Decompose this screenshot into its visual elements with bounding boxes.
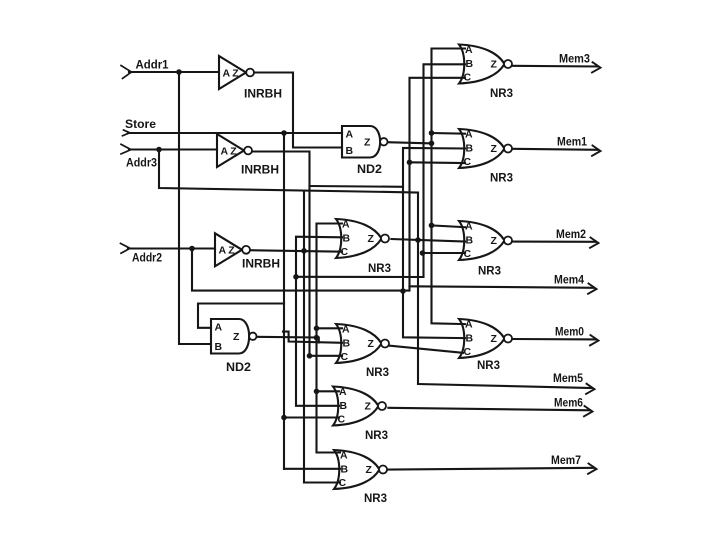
svg-text:B: B — [346, 145, 354, 157]
wire Addr3 right bus — [417, 193, 419, 384]
nor NR3 U14 — [459, 319, 505, 358]
svg-text:B: B — [466, 143, 474, 155]
output Mem0 — [513, 338, 597, 340]
svg-text:Z: Z — [491, 235, 498, 247]
input port Addr2 — [121, 243, 131, 253]
svg-text:Z: Z — [491, 143, 498, 155]
wire Addr1 bus to ND2 U5 pin B — [179, 72, 211, 344]
inverter U1 INRBH — [219, 56, 246, 89]
svg-text:Z: Z — [364, 137, 371, 149]
svg-text:Mem1: Mem1 — [557, 137, 588, 149]
svg-text:C: C — [338, 413, 346, 425]
node Store tap — [281, 130, 287, 136]
svg-text:Z: Z — [368, 233, 375, 245]
svg-text:NR3: NR3 — [478, 266, 501, 278]
wire NR3 U9 pin C stub — [284, 416, 339, 418]
output Mem5 — [418, 384, 592, 388]
svg-text:NR3: NR3 — [477, 360, 500, 372]
node Addr3 tap — [156, 147, 162, 153]
wire NR3 U7 pin A stub — [317, 327, 343, 329]
nand ND2 U5 — [211, 319, 249, 354]
svg-text:INRBH: INRBH — [242, 259, 280, 271]
svg-text:Mem3: Mem3 — [559, 54, 590, 66]
wire U7 output to U14 pin C — [388, 346, 463, 353]
inverter U2 INRBH — [217, 134, 244, 167]
svg-text:B: B — [340, 400, 348, 412]
output Mem1 — [513, 149, 599, 150]
svg-text:B: B — [343, 233, 351, 245]
svg-text:Mem6: Mem6 — [554, 398, 583, 410]
nor NR3 U9 — [333, 387, 379, 426]
svg-text:A: A — [465, 221, 473, 233]
svg-text:Mem2: Mem2 — [556, 229, 586, 241]
node U3 output junction — [301, 248, 307, 254]
svg-text:Z: Z — [491, 59, 498, 71]
svg-text:ND2: ND2 — [357, 164, 382, 176]
wire NR3 U7 pin B dogleg — [283, 332, 342, 343]
svg-text:C: C — [464, 156, 472, 168]
svg-text:NR3: NR3 — [490, 88, 513, 100]
svg-text:Z: Z — [491, 333, 498, 345]
svg-text:NR3: NR3 — [490, 173, 513, 185]
svg-text:NR3: NR3 — [366, 367, 389, 379]
wire NR3 U13 pin A stub — [432, 225, 466, 227]
svg-text:A: A — [342, 324, 350, 336]
svg-text:C: C — [341, 351, 349, 363]
wire V4 bus — [296, 64, 465, 277]
svg-text:A: A — [339, 386, 347, 398]
svg-text:A: A — [219, 245, 227, 257]
wire B bus — [296, 237, 342, 406]
svg-text:B: B — [466, 58, 474, 70]
nor NR3 U6 — [336, 219, 382, 258]
svg-text:Z: Z — [365, 401, 372, 413]
wire ND2 U5 output — [256, 337, 319, 343]
svg-text:Mem5: Mem5 — [553, 373, 584, 385]
svg-text:C: C — [464, 248, 472, 260]
svg-text:C: C — [341, 246, 349, 258]
svg-text:C: C — [464, 346, 472, 358]
svg-text:A: A — [346, 129, 354, 141]
svg-text:Store: Store — [125, 119, 156, 131]
node B bus join — [293, 274, 299, 280]
svg-text:INRBH: INRBH — [241, 165, 279, 177]
nor NR3 U12 — [459, 129, 505, 168]
wire left bus L3 — [303, 191, 305, 483]
input port Store — [123, 130, 130, 136]
wire right B-feed bus — [403, 148, 465, 338]
svg-text:Z: Z — [232, 67, 239, 79]
output Mem7 — [388, 468, 594, 470]
wire NR3 U10 pin C stub — [304, 481, 340, 483]
inverter U3 INRBH — [215, 233, 242, 266]
wire NR3 U13 pin C stub — [423, 252, 466, 254]
wire U6 output to U13 pin B — [391, 239, 465, 242]
wire V5 bus — [410, 78, 466, 286]
output Mem6 — [388, 408, 590, 411]
wire NR3 U9 pin A stub — [317, 390, 340, 392]
nor NR3 U11 — [459, 45, 505, 84]
svg-text:Mem4: Mem4 — [554, 275, 585, 287]
svg-text:C: C — [339, 477, 347, 489]
output Mem3 — [513, 65, 599, 68]
svg-text:B: B — [343, 338, 351, 350]
wire NR3 U12 pin A stub — [432, 132, 466, 135]
nor NR3 U10 — [334, 450, 380, 489]
svg-text:Z: Z — [228, 245, 235, 257]
svg-text:NR3: NR3 — [364, 493, 387, 505]
svg-text:A: A — [465, 44, 473, 56]
wire NR3 U7 pin C stub — [310, 355, 343, 357]
node U2 bus to NR3 U7 pin C — [307, 353, 313, 359]
nor NR3 U13 — [459, 221, 505, 260]
svg-text:ND2: ND2 — [226, 362, 251, 374]
node V5 to NR3 U12 pin C — [407, 160, 413, 166]
svg-text:Z: Z — [368, 338, 375, 350]
svg-text:B: B — [215, 341, 223, 353]
svg-text:A: A — [340, 450, 348, 462]
output Mem2 — [513, 241, 597, 243]
svg-text:NR3: NR3 — [368, 263, 391, 275]
svg-text:A: A — [221, 145, 229, 157]
svg-text:B: B — [466, 235, 474, 247]
node V4 to NR3 U13 pin C — [420, 250, 426, 256]
svg-text:Z: Z — [366, 464, 373, 476]
wire U1 output to ND2 U4 pin B — [254, 73, 342, 148]
svg-text:Addr3: Addr3 — [126, 158, 157, 170]
wire V3 bus — [432, 49, 466, 325]
svg-text:Z: Z — [230, 145, 237, 157]
svg-text:NR3: NR3 — [365, 430, 388, 442]
output Mem4 — [410, 286, 595, 288]
wire ND2 U4 output — [387, 142, 433, 143]
svg-text:Addr2: Addr2 — [132, 253, 162, 265]
node Store bus to NR3 U9 pin C — [281, 415, 287, 421]
node A-feed to NR3 U9 pin A — [314, 389, 320, 395]
svg-text:Mem0: Mem0 — [555, 327, 584, 339]
svg-text:B: B — [341, 464, 349, 476]
svg-text:Z: Z — [233, 331, 240, 343]
svg-text:A: A — [465, 129, 473, 141]
node V3 to NR3 U12 pin A — [429, 130, 435, 136]
node A-feed to NR3 U7 pin A — [314, 326, 320, 332]
node Addr1 tap — [176, 69, 182, 75]
wire U2 output bus — [252, 152, 310, 356]
svg-text:Addr1: Addr1 — [136, 60, 170, 72]
wire U2 bus branch to right B-feed bus — [310, 185, 404, 188]
nor NR3 U7 — [336, 324, 382, 363]
svg-text:A: A — [342, 219, 350, 231]
svg-text:B: B — [466, 333, 474, 345]
wire Store bus branch to ND2 U5 pin A — [198, 304, 284, 328]
wire A-feed bus — [317, 224, 343, 453]
svg-text:INRBH: INRBH — [244, 89, 282, 101]
wire NR3 U10 pin B stub — [284, 468, 340, 470]
nand ND2 U4 — [342, 126, 380, 158]
wire Addr2 long line — [192, 249, 410, 291]
svg-text:A: A — [223, 67, 231, 79]
svg-text:C: C — [464, 71, 472, 83]
svg-text:Mem7: Mem7 — [551, 455, 581, 467]
node right B-feed bus on Addr2 line — [400, 288, 406, 294]
wire U3 output to NR3 U6 pin C — [250, 250, 342, 252]
svg-text:A: A — [465, 319, 473, 331]
wire NR3 U12 pin C stub — [410, 161, 466, 164]
node Addr3 bus on NR3 U6 output line — [415, 237, 421, 243]
wire Addr3 long line — [159, 150, 418, 193]
wire Store bus — [283, 133, 285, 469]
node U5 output on A-feed bus — [314, 335, 320, 341]
node Addr2 tap — [189, 246, 195, 252]
node V3 to NR3 U13 pin A — [429, 223, 435, 229]
svg-text:A: A — [215, 322, 223, 334]
input port Addr3 — [121, 144, 131, 154]
node U4 output on V3 bus — [429, 141, 435, 147]
input port Addr1 — [121, 66, 132, 79]
